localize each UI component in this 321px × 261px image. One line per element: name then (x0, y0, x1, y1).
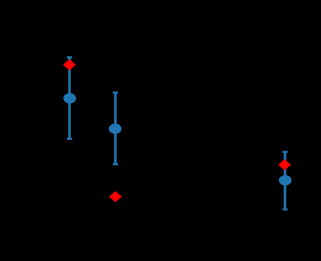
circle marker point 1 (63, 93, 76, 103)
errorbar series 1 (blue) (67, 57, 288, 209)
red diamond marker point 1 (63, 59, 76, 70)
errorbar top cap point 2 (113, 91, 118, 93)
errorbar top cap point 3 (282, 151, 287, 153)
errorbar top cap point 1 (67, 56, 72, 58)
circle marker point 3 (279, 175, 292, 185)
errorbar bottom cap point 2 (113, 163, 118, 165)
errorbar bottom cap point 1 (67, 138, 72, 140)
wire: errorbar vertical line point 2 (114, 93, 117, 165)
circle marker point 2 (109, 124, 122, 134)
errorbar bottom cap point 3 (282, 208, 287, 210)
red diamond marker point 3 (278, 159, 291, 170)
wire: errorbar vertical line point 3 (284, 152, 287, 210)
wire: errorbar vertical line point 1 (68, 57, 71, 139)
red diamond marker point 2 (109, 191, 122, 202)
